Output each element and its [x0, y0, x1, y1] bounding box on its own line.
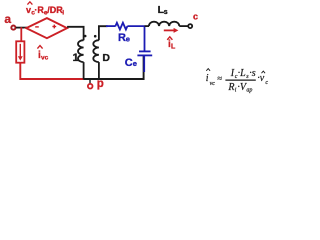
- wire inductor to node c: [179, 25, 188, 27]
- label i_L: [167, 37, 176, 51]
- svg-text:·R: ·R: [34, 5, 44, 15]
- transformer primary winding: [78, 40, 84, 62]
- node a terminal circle: [11, 26, 15, 30]
- inductor Ls coil: [149, 22, 179, 26]
- transformer secondary top stem: [99, 26, 108, 40]
- secondary bottom stem: [98, 62, 100, 79]
- svg-text:R: R: [227, 82, 234, 93]
- svg-text:R: R: [118, 32, 126, 44]
- minus sign inside diamond: [35, 26, 39, 28]
- svg-text:/DR: /DR: [47, 5, 63, 15]
- svg-text:ap: ap: [246, 88, 252, 94]
- svg-text:C: C: [125, 57, 133, 69]
- node p terminal circle: [88, 84, 93, 89]
- wire node a to diamond: [16, 27, 27, 29]
- svg-text:i: i: [62, 10, 64, 17]
- transformer secondary winding: [93, 40, 99, 62]
- primary polarity dot: [84, 35, 87, 38]
- svg-text:1: 1: [73, 52, 79, 64]
- wire junction down to current source: [20, 27, 22, 42]
- arrow inside current source: [19, 44, 21, 57]
- current arrow i_L: [164, 29, 175, 31]
- svg-text:·v: ·v: [257, 73, 265, 84]
- primary bottom stem: [83, 62, 85, 79]
- svg-text:c: c: [265, 80, 268, 86]
- svg-text:a: a: [4, 12, 11, 26]
- capacitor bottom lead: [143, 56, 145, 72]
- svg-text:D: D: [102, 52, 110, 64]
- svg-text:p: p: [97, 78, 104, 90]
- secondary polarity dot: [94, 35, 97, 38]
- dependent voltage source diamond: [26, 18, 67, 38]
- plus sign inside diamond: [52, 26, 56, 28]
- red wire source bottom to rail: [20, 63, 84, 79]
- capacitor bottom plate: [137, 54, 152, 56]
- blue wire resistor to capacitor node: [127, 25, 144, 27]
- capacitor top lead: [144, 26, 146, 51]
- svg-text:≈: ≈: [217, 73, 222, 83]
- svg-text:·L: ·L: [238, 68, 247, 79]
- svg-text:·s: ·s: [249, 68, 256, 79]
- dependent current source rectangle: [16, 41, 24, 62]
- blue wire secondary to resistor: [106, 25, 116, 27]
- node c terminal circle: [188, 24, 192, 28]
- equation i_vc approx (Ic Ls s)/(Ri Vap) vc: [206, 68, 269, 93]
- diamond value label vc*Re/DRi: [26, 2, 64, 17]
- svg-text:vc: vc: [41, 55, 49, 62]
- resistor Re zigzag: [115, 23, 127, 30]
- node p stub: [89, 80, 91, 84]
- bottom rail black portion: [84, 56, 144, 80]
- label i_vc: [37, 46, 48, 62]
- svg-text:vc: vc: [210, 81, 216, 87]
- svg-text:L: L: [171, 43, 176, 50]
- svg-text:i: i: [206, 73, 209, 84]
- wire capacitor node to inductor: [145, 25, 150, 27]
- svg-text:e: e: [126, 34, 130, 43]
- capacitor top plate: [139, 50, 151, 52]
- wire diamond to transformer primary: [67, 27, 84, 40]
- svg-text:s: s: [164, 9, 168, 16]
- svg-text:e: e: [133, 59, 137, 68]
- svg-text:c: c: [193, 12, 198, 22]
